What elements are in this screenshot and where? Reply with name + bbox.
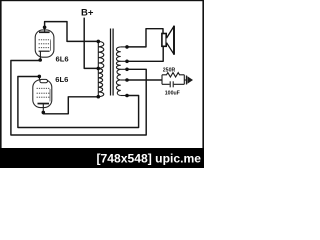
svg-text:6L6: 6L6	[55, 75, 68, 84]
svg-text:6L6: 6L6	[56, 55, 69, 64]
svg-text:B+: B+	[81, 8, 94, 19]
svg-text:100uF: 100uF	[165, 91, 180, 97]
svg-text:[748x548] upic.me: [748x548] upic.me	[97, 153, 202, 165]
svg-text:250R: 250R	[163, 68, 176, 74]
